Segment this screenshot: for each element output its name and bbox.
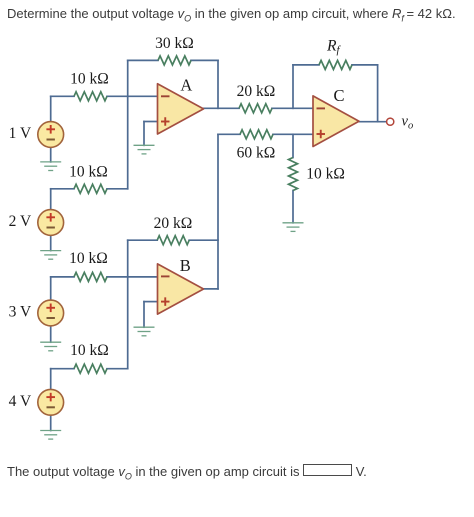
svg-text:10 kΩ: 10 kΩ [69,250,108,267]
wire: 4V stem up to row4 [50,369,52,390]
svg-text:A: A [180,76,192,95]
svg-text:C: C [333,86,344,105]
wire: B feedback row right [189,239,218,241]
ground at A plus input [134,144,155,146]
wire: B plus input stub [144,301,158,303]
svg-text:4 V: 4 V [9,393,32,410]
wire: A plus input stub [144,121,158,123]
op-amp B [158,264,204,314]
wire: vertical joining row2 to A minus node [127,96,129,189]
ground under 4V source [40,430,61,432]
resistor 20 kOhm (B feedback) [157,236,189,245]
wire: 1V source to ground stem [50,147,52,162]
wire: 30k feedback loop left vertical [127,60,129,96]
wire: 2V source to ground stem [50,235,52,250]
op-amp C [313,96,359,147]
svg-text:20 kΩ: 20 kΩ [237,83,276,100]
wire: 1V stem up to row1 [50,96,52,121]
wire: row1 from source to 10k [51,95,74,97]
output terminal node [387,118,394,125]
op-amp A [158,84,204,134]
wire: 2V stem up to row2 [50,189,52,210]
svg-text:10 kΩ: 10 kΩ [70,71,109,88]
ground at B plus input [134,326,155,328]
ground under 3V source [40,341,61,343]
wire: C output to terminal [359,121,386,123]
ground under 2V source [40,250,61,252]
wire: 4V source to ground stem [50,415,52,430]
voltage source 1 V [38,122,64,148]
wire: row2 left segment [51,188,74,190]
svg-text:B: B [180,256,191,275]
voltage source 3 V [38,300,64,326]
svg-text:vo: vo [402,114,414,132]
wire: Rf loop right vertical to C output [377,65,379,122]
wire: 3V source to ground stem [50,326,52,342]
svg-text:3 V: 3 V [9,304,32,321]
wire: row4 left segment [51,368,74,370]
wire: A output to 20k [204,107,240,109]
bottom prompt text [7,464,367,482]
wire: 20k to C minus input [272,107,313,109]
voltage source 2 V [38,210,64,236]
svg-text:10 kΩ: 10 kΩ [70,342,109,359]
resistor 10 kOhm row2 (2V input) [74,184,107,193]
wire: B feedback row left [128,239,158,241]
wire: row4 right segment [107,368,128,370]
resistor 60 kOhm (to C plus) [240,130,273,139]
resistor 10 kOhm row3 (3V input) [74,272,107,281]
wire: B output to right bus [204,288,219,290]
svg-text:30 kΩ: 30 kΩ [155,35,194,52]
wire: 30k feedback right vertical to A output [217,60,219,108]
ground under 1V source [40,161,61,163]
wire: 10k grounding resistor lower stem [292,191,294,223]
svg-text:2 V: 2 V [9,213,32,230]
svg-text:Rf: Rf [326,38,341,57]
ground under 10k grounding resistor [283,222,304,224]
wire: 60k row left segment [218,133,240,135]
resistor 10 kOhm vertical (C plus to ground) [289,158,298,191]
wire: 30k feedback top row [128,59,158,61]
wire: Rf loop left vertical [292,65,294,108]
resistor 30 kOhm (A feedback) [158,56,191,65]
wire: row3 left segment [51,276,74,278]
wire: row2 right segment [107,188,128,190]
wire: 10k grounding resistor upper stem [292,134,294,157]
resistor Rf (C feedback) [319,60,352,69]
wire: Rf row segments [293,64,319,66]
wire: 60k to C plus input [273,133,313,135]
svg-text:20 kΩ: 20 kΩ [154,215,193,232]
wire: 3V stem up to row3 [50,277,52,300]
svg-text:60 kΩ: 60 kΩ [237,145,276,162]
wire: row1 from 10k to op-amp A minus [107,95,158,97]
resistor 10 kOhm row1 (1V input) [74,92,107,101]
svg-text:10 kΩ: 10 kΩ [69,164,108,181]
wire: vertical joining B feedback, row3, row4 [127,240,129,369]
resistor 10 kOhm row4 (4V input) [74,364,107,373]
wire: right vertical bus (60k / B feedback / B output) [217,134,219,289]
wire: row3 to op-amp B minus [107,276,158,278]
title text [7,6,456,24]
voltage source 4 V [38,389,64,415]
svg-text:1 V: 1 V [9,125,32,142]
resistor 20 kOhm (A output to C) [239,104,272,113]
svg-text:10 kΩ: 10 kΩ [306,166,345,183]
